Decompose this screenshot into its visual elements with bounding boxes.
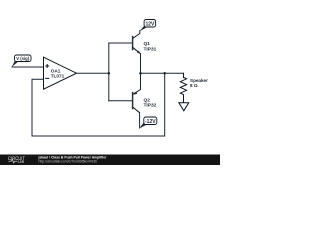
node -12V flag [139, 117, 157, 129]
wire [12, 66, 44, 68]
junction dot: feedback node [163, 72, 166, 75]
transistor Q1 TIP31 [132, 34, 156, 54]
svg-text:TIP32: TIP32 [144, 103, 157, 109]
svg-text:TL071: TL071 [51, 73, 65, 78]
wire [109, 42, 133, 44]
footer bar [0, 155, 220, 166]
wire [139, 113, 141, 128]
svg-text:-12V: -12V [145, 119, 156, 125]
op-amp U1 OA1 TL071 [44, 57, 77, 89]
svg-text:http://circuitlab.com/c/7nm93t: http://circuitlab.com/c/7nm93t5kv47k2b [39, 159, 98, 163]
junction dot: op-amp output to bases [108, 72, 111, 75]
svg-text:8 Ω: 8 Ω [190, 83, 198, 88]
wire [77, 72, 109, 74]
svg-text:LAB: LAB [18, 159, 24, 164]
node V(sig) flag [12, 55, 31, 67]
resistor Speaker 8 ohm [180, 73, 208, 102]
footer logo CIRCUIT LAB [8, 156, 25, 164]
wire [109, 100, 133, 102]
wire [140, 54, 142, 90]
svg-text:V (sig): V (sig) [16, 56, 29, 61]
wire [32, 73, 165, 136]
svg-text:Q1: Q1 [144, 41, 151, 47]
svg-text:12V: 12V [145, 21, 155, 27]
node +12V flag [140, 20, 156, 32]
svg-text:TIP31: TIP31 [144, 46, 157, 52]
transistor Q2 TIP32 [132, 90, 156, 113]
wire [141, 72, 184, 74]
ground [179, 103, 189, 111]
svg-text:Q2: Q2 [144, 98, 151, 104]
wire [108, 43, 110, 101]
junction dot: emitters node [139, 72, 142, 75]
wire [183, 73, 185, 77]
wire [139, 31, 141, 34]
